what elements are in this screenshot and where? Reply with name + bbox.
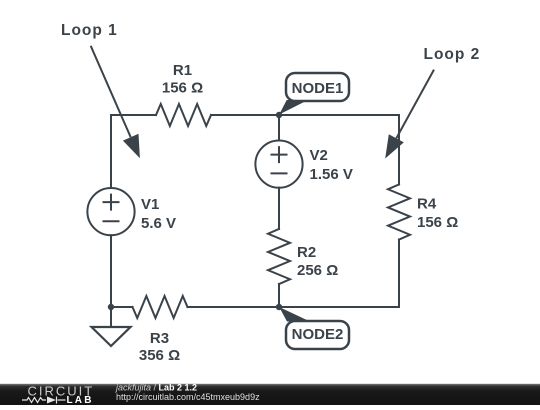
svg-text:156 Ω: 156 Ω xyxy=(162,80,203,97)
wire Loop 1 arrow line xyxy=(91,46,131,137)
node junction dot NODE1 xyxy=(276,112,282,118)
svg-text:V2: V2 xyxy=(310,147,328,164)
svg-text:356 Ω: 356 Ω xyxy=(139,347,180,364)
svg-text:R2: R2 xyxy=(297,244,316,261)
wire top-middle segment xyxy=(211,114,279,116)
svg-text:5.6 V: 5.6 V xyxy=(141,215,176,232)
wire top-left segment xyxy=(111,115,156,188)
svg-text:1.56 V: 1.56 V xyxy=(310,166,353,183)
ground xyxy=(92,327,131,346)
wire middle-top segment xyxy=(278,115,280,141)
V2 minus sign xyxy=(272,172,287,174)
svg-text:256 Ω: 256 Ω xyxy=(297,262,338,279)
Loop 1 arrowhead xyxy=(123,134,140,159)
footer logo resistor squiggle and diode xyxy=(22,397,66,404)
node junction dot NODE2 xyxy=(276,304,282,310)
resistor R4 xyxy=(388,185,410,240)
resistor R1 xyxy=(156,104,211,126)
V1 plus sign xyxy=(104,195,119,210)
wire Loop 2 arrow line xyxy=(396,70,434,139)
wire R2-to-node2 segment xyxy=(278,284,280,307)
node NODE1 callout pointer xyxy=(279,100,308,115)
svg-text:Loop 1: Loop 1 xyxy=(61,22,118,39)
node NODE1 callout box xyxy=(286,73,349,101)
ground stub wire xyxy=(110,307,112,327)
svg-text:Loop 2: Loop 2 xyxy=(424,46,481,63)
svg-text:V1: V1 xyxy=(141,196,159,213)
wire bottom-left segment xyxy=(111,306,133,308)
svg-text:156 Ω: 156 Ω xyxy=(417,214,458,231)
wire V2-to-R2 segment xyxy=(278,188,280,229)
wire top-right segment xyxy=(279,115,399,185)
svg-text:R1: R1 xyxy=(173,62,192,79)
V1 minus sign xyxy=(104,220,119,222)
node junction dot ground xyxy=(108,304,114,310)
svg-text:R3: R3 xyxy=(150,330,169,347)
wire left V1-top segment xyxy=(110,115,112,188)
wire V1-to-bottom segment xyxy=(110,235,112,307)
V2 plus sign xyxy=(272,147,287,162)
footer bar xyxy=(0,384,540,405)
Loop 2 arrowhead xyxy=(385,134,404,158)
wire right-bottom segment xyxy=(279,240,399,308)
svg-text:NODE2: NODE2 xyxy=(292,326,344,343)
wire bottom-middle segment xyxy=(188,306,280,308)
node NODE2 callout pointer xyxy=(279,307,310,322)
svg-text:LAB: LAB xyxy=(67,395,94,405)
resistor R3 xyxy=(133,296,188,318)
voltage source V1 xyxy=(87,188,134,235)
voltage source V2 xyxy=(255,141,302,188)
node NODE2 callout box xyxy=(286,321,349,349)
svg-text:R4: R4 xyxy=(417,195,437,212)
svg-text:http://circuitlab.com/c45tmxeu: http://circuitlab.com/c45tmxeub9d9z xyxy=(116,392,260,402)
svg-text:NODE1: NODE1 xyxy=(292,80,344,97)
svg-text:jackfujita / Lab 2 1.2: jackfujita / Lab 2 1.2 xyxy=(115,383,197,393)
resistor R2 xyxy=(268,229,290,284)
